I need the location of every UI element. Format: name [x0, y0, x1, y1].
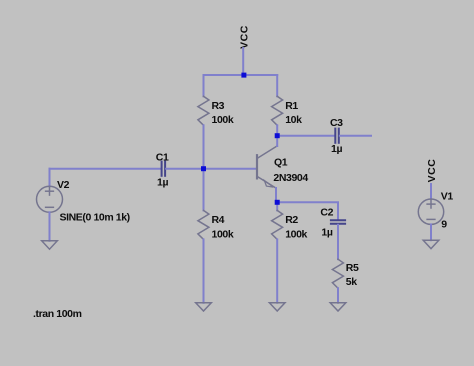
svg-text:Q1: Q1	[274, 157, 288, 169]
svg-text:1µ: 1µ	[321, 227, 332, 239]
svg-text:2N3904: 2N3904	[273, 172, 308, 184]
wire R5 bottom lead	[337, 288, 339, 303]
wire input rail from V2 to C1	[50, 168, 161, 170]
wire emitter node to C2	[277, 202, 338, 219]
svg-text:R5: R5	[346, 262, 359, 274]
wire Q1 emitter lead	[275, 188, 277, 202]
svg-text:5k: 5k	[346, 276, 357, 288]
voltage source V1 (9V supply)	[418, 184, 443, 240]
capacitor C1	[162, 162, 166, 176]
ground under R4	[196, 303, 212, 311]
resistor R3	[198, 96, 209, 125]
svg-text:R3: R3	[212, 100, 225, 112]
svg-text:R2: R2	[285, 214, 298, 226]
svg-text:.tran 100m: .tran 100m	[33, 308, 82, 320]
capacitor C3	[335, 129, 339, 143]
ground under R5	[330, 303, 346, 311]
svg-text:VCC: VCC	[238, 25, 250, 49]
junction base node	[201, 166, 206, 171]
wire R2 top lead	[276, 202, 278, 210]
wire R3 top lead	[203, 75, 205, 96]
junction collector node	[275, 133, 280, 138]
wire R4 top lead	[203, 169, 205, 211]
ground under R2	[269, 303, 285, 311]
svg-text:V1: V1	[441, 191, 454, 203]
wire collector node to C3	[277, 135, 334, 137]
wire base node to Q1 base	[204, 168, 257, 170]
wire R2 bottom lead	[276, 239, 278, 302]
junction at VCC rail	[241, 73, 246, 78]
voltage source V2 (sine input)	[37, 169, 63, 241]
wire R4 bottom lead	[203, 239, 205, 302]
wire top rail from R3 to R1	[204, 74, 278, 76]
svg-text:R4: R4	[212, 214, 225, 226]
svg-text:100k: 100k	[212, 228, 234, 240]
wire C2 to R5	[337, 225, 339, 259]
junction emitter node	[275, 200, 280, 205]
ground under V1	[423, 240, 439, 248]
svg-text:R1: R1	[285, 100, 298, 112]
resistor R4	[198, 210, 209, 239]
ground under V2	[42, 241, 58, 249]
resistor R5	[332, 259, 343, 288]
wire Q1 collector lead	[276, 136, 278, 146]
svg-text:1µ: 1µ	[331, 143, 342, 155]
power flag VCC (top rail)	[238, 25, 250, 75]
svg-text:C2: C2	[320, 206, 333, 218]
resistor R2	[272, 210, 283, 239]
wire R1 bottom to collector node	[276, 125, 278, 135]
wire R3 bottom to input node	[203, 125, 205, 168]
svg-text:V2: V2	[57, 179, 70, 191]
svg-text:C3: C3	[330, 117, 343, 129]
svg-text:9: 9	[441, 219, 447, 231]
svg-text:SINE(0 10m 1k): SINE(0 10m 1k)	[60, 211, 130, 223]
svg-text:C1: C1	[156, 151, 169, 163]
svg-text:VCC: VCC	[426, 159, 438, 183]
transistor Q1 (NPN)	[257, 146, 277, 188]
wire R1 top lead	[276, 75, 278, 96]
wire C1 to base node	[166, 168, 203, 170]
resistor R1	[272, 96, 283, 125]
svg-text:10k: 10k	[285, 114, 302, 126]
svg-text:1µ: 1µ	[157, 177, 168, 189]
svg-text:100k: 100k	[285, 228, 307, 240]
capacitor C2	[331, 220, 345, 223]
svg-text:100k: 100k	[212, 114, 234, 126]
wire C3 to output stub	[340, 135, 371, 137]
